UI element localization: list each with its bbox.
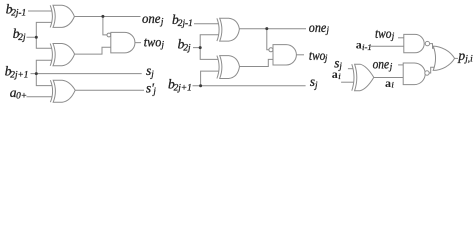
svg-text:2j+1: 2j+1: [174, 83, 192, 93]
svg-text:j,i: j,i: [464, 55, 473, 65]
svg-text:a: a: [332, 67, 338, 81]
svg-text:0+: 0+: [16, 91, 27, 101]
svg-text:a: a: [385, 76, 391, 90]
svg-text:i: i: [391, 80, 394, 90]
svg-text:j: j: [150, 69, 154, 79]
svg-text:2j+1: 2j+1: [10, 71, 28, 81]
svg-text:j: j: [389, 62, 393, 72]
svg-text:j: j: [391, 31, 395, 41]
svg-text:one: one: [309, 20, 327, 35]
svg-text:one: one: [373, 56, 390, 71]
svg-text:j: j: [152, 86, 156, 96]
svg-text:2j: 2j: [183, 43, 191, 53]
svg-text:one: one: [142, 11, 161, 26]
svg-text:i: i: [338, 71, 341, 81]
svg-text:j: j: [326, 25, 330, 35]
svg-text:a: a: [356, 38, 362, 52]
svg-text:2j: 2j: [18, 33, 26, 43]
svg-text:j: j: [314, 80, 318, 90]
svg-text:j: j: [160, 17, 164, 27]
svg-text:p: p: [457, 48, 465, 63]
svg-text:j: j: [161, 40, 165, 50]
svg-text:2j-1: 2j-1: [178, 19, 193, 29]
svg-text:two: two: [309, 48, 326, 63]
svg-text:two: two: [144, 34, 162, 49]
svg-text:two: two: [375, 26, 392, 41]
svg-text:i-1: i-1: [362, 42, 372, 52]
svg-text:2j-1: 2j-1: [11, 8, 26, 18]
svg-text:j: j: [338, 61, 342, 71]
svg-text:j: j: [324, 53, 328, 63]
